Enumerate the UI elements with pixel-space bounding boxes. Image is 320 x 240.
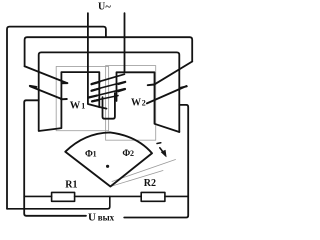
wire from C-left down to bridge [24, 100, 86, 216]
center winding stroke S1 wedge [92, 82, 100, 84]
svg-text:1: 1 [81, 102, 85, 111]
wire supply left vertical [88, 13, 107, 108]
svg-text:R1: R1 [65, 179, 77, 190]
center winding stroke S4 wedge [92, 100, 99, 101]
center winding stroke S1 [92, 74, 125, 84]
rotor direction line 2 (thin) [112, 171, 163, 187]
svg-text:~: ~ [105, 2, 111, 13]
svg-text:W: W [131, 98, 141, 109]
wire A top outer [7, 27, 106, 209]
svg-text:2: 2 [130, 149, 134, 158]
winding W1 lead diagonal D1 [25, 66, 68, 83]
pivot dot [106, 165, 109, 168]
wire from C-right down to bridge [124, 105, 188, 218]
svg-text:R2: R2 [144, 178, 156, 189]
winding W2 turn E2 [147, 86, 187, 103]
svg-text:2: 2 [142, 99, 146, 108]
coil W2 rectangle [117, 72, 180, 132]
rotation arrow tail [157, 142, 161, 145]
core outline right (gray) [106, 66, 156, 141]
core outline left (gray) [56, 66, 108, 130]
bridge midpoint vertical [7, 196, 110, 208]
center leg plunger [103, 93, 115, 119]
center winding stroke S2 wedges [92, 82, 126, 91]
sector rotor [65, 132, 152, 186]
center winding stroke S3 wedges [89, 89, 125, 97]
bridge row wire [24, 195, 188, 197]
center winding stroke S2 [92, 82, 126, 91]
svg-text:U: U [98, 2, 105, 13]
center winding stroke S3 [91, 89, 125, 97]
svg-text:1: 1 [93, 150, 97, 159]
coil W1 rectangle [39, 72, 100, 131]
rotation arrow head [161, 150, 166, 157]
winding W2 lead diagonal E1 [148, 62, 193, 86]
winding W1 turn D2 [30, 86, 67, 100]
resistor R1 box [52, 192, 75, 201]
wire supply right vertical [124, 13, 126, 72]
svg-text:U: U [88, 212, 96, 224]
svg-text:W: W [70, 101, 81, 112]
resistor R2 box [141, 192, 165, 201]
rotation arrow shaft [160, 148, 164, 153]
center winding stroke S4 [92, 96, 118, 101]
rotor direction line 1 (thin) [112, 160, 176, 182]
wire C third horizontal [39, 52, 180, 132]
wire B second horizontal [25, 37, 193, 66]
svg-text:вых: вых [98, 213, 115, 223]
